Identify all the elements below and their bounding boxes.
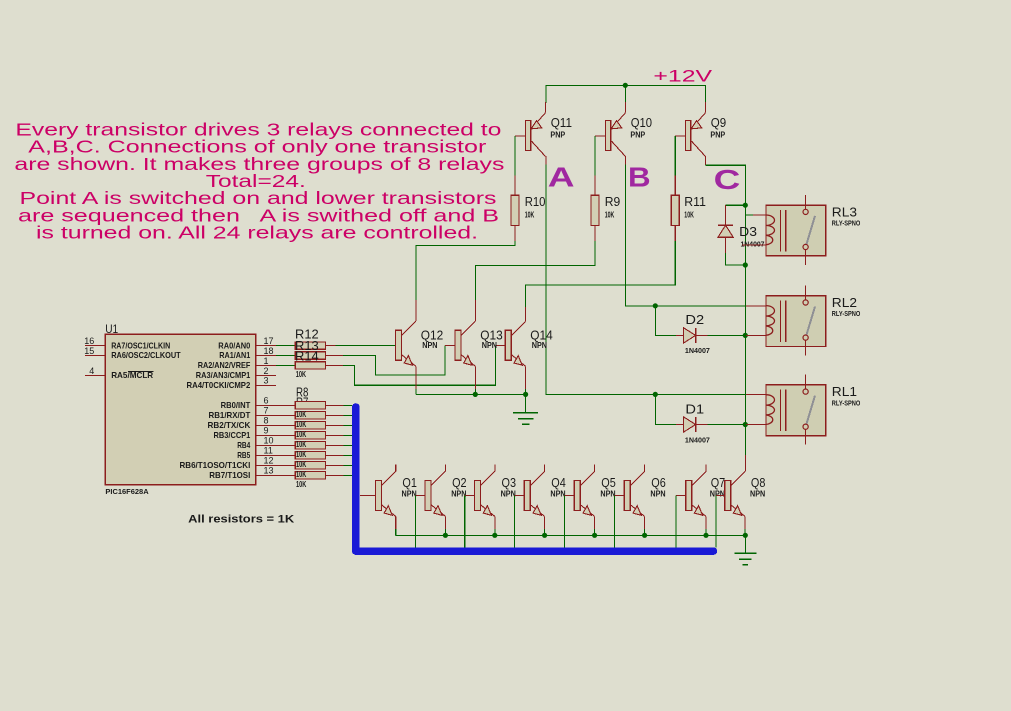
- svg-text:RB0/INT: RB0/INT: [221, 400, 251, 410]
- wire D1 branch from net A: [655, 394, 676, 424]
- resistor R12 body: [295, 342, 325, 349]
- svg-text:RB7/T1OSI: RB7/T1OSI: [209, 470, 250, 480]
- wire to bottom ground: [744, 535, 746, 553]
- U1 pin 3 stub: [256, 384, 276, 386]
- wire RL3 coil bottom pin stub: [742, 244, 766, 246]
- U1 pin 9 stub: [256, 434, 276, 436]
- transistor Q1 emitter arrow: [384, 506, 392, 516]
- relay RL2 switch blade: [807, 307, 816, 335]
- junction chain / D2 cathode / RL2 coil: [743, 333, 748, 338]
- wire Q12 emitter to rail: [415, 366, 417, 389]
- transistor Q5 collector lead: [580, 471, 594, 485]
- svg-text:9: 9: [264, 426, 269, 436]
- diode D2 body: [684, 328, 696, 343]
- svg-text:12: 12: [264, 456, 274, 466]
- transistor Q12 body: [396, 330, 402, 360]
- svg-text:16: 16: [84, 336, 94, 346]
- relay RL2 switch bottom contact: [803, 335, 808, 340]
- transistor Q2 emitter arrow: [434, 506, 442, 516]
- wire U1 pin to resistor: [276, 355, 295, 357]
- relay RL1 NO pin: [805, 429, 807, 444]
- svg-text:RB2/TX/CK: RB2/TX/CK: [208, 420, 251, 430]
- wire Q2 base drop to bus: [414, 495, 416, 547]
- transistor Q13 emitter arrow: [464, 356, 472, 366]
- svg-text:NPN: NPN: [532, 341, 547, 350]
- svg-text:Q9: Q9: [711, 115, 726, 130]
- relay RL3 switch blade: [807, 216, 816, 244]
- svg-text:U1: U1: [105, 322, 118, 336]
- wire Q10 base to R9: [595, 135, 605, 137]
- wire R12 to Q12 base: [325, 345, 335, 347]
- U1 pin 18 stub: [256, 355, 276, 357]
- svg-text:NPN: NPN: [482, 341, 497, 350]
- transistor Q4 body: [524, 480, 530, 510]
- diode D3 body: [718, 225, 733, 237]
- svg-text:10K: 10K: [296, 410, 306, 419]
- wire Q7 collector stub (open): [705, 464, 707, 471]
- U1 pin 7 stub: [256, 414, 276, 416]
- wire U1 pin to resistor: [276, 364, 295, 366]
- svg-text:NPN: NPN: [550, 490, 565, 499]
- wire Q5 base stub: [565, 494, 575, 496]
- svg-text:D3: D3: [739, 224, 757, 239]
- transistor Q3 collector lead: [481, 471, 495, 485]
- svg-text:15: 15: [84, 346, 94, 356]
- svg-text:RL3: RL3: [832, 204, 857, 219]
- wire Q4 base stub: [515, 494, 525, 496]
- wire to middle ground: [525, 394, 527, 412]
- wire Q8 base stub: [716, 494, 725, 496]
- transistor Q3 body: [475, 480, 481, 510]
- wire Q6 emitter to rail: [644, 516, 646, 529]
- relay RL1 coil: [766, 395, 775, 425]
- relay RL2 coil: [766, 306, 775, 336]
- transistor Q1 collector lead: [381, 471, 395, 485]
- transistor Q2 collector lead: [431, 471, 445, 485]
- svg-text:10K: 10K: [525, 211, 535, 220]
- wire D1 cathode to chain / RL1 coil bottom: [696, 424, 708, 426]
- wire Q14 emitter to rail: [525, 366, 527, 389]
- wire resistor to bus: [325, 464, 343, 466]
- transistor Q9 emitter arrow (PNP, into base): [691, 121, 702, 129]
- wire net A (Q11 collector down to RL1 row): [545, 156, 547, 164]
- transistor Q9 collector lead: [692, 141, 706, 156]
- relay RL3 coil: [766, 215, 775, 245]
- svg-text:R14: R14: [295, 348, 319, 363]
- svg-text:18: 18: [264, 346, 274, 356]
- relay RL1 core bars: [780, 390, 782, 432]
- wire Q1-Q8 emitter rail: [396, 534, 746, 536]
- svg-text:RLY-SPNO: RLY-SPNO: [832, 221, 861, 228]
- transistor Q1 emitter lead: [381, 505, 395, 517]
- transistor Q8 collector lead: [731, 471, 745, 485]
- wire U1 RB pin to resistor: [276, 464, 295, 466]
- resistor R8 column body 8: [295, 472, 325, 479]
- transistor Q6 collector lead: [630, 471, 644, 485]
- transistor Q4 emitter arrow: [533, 506, 541, 516]
- svg-text:A: A: [548, 162, 575, 193]
- U1 pin 12 stub: [256, 464, 276, 466]
- svg-text:10: 10: [264, 436, 274, 446]
- wire Q2 collector stub (open): [444, 464, 446, 471]
- svg-text:10K: 10K: [296, 440, 306, 449]
- relay RL3 switch bottom contact: [803, 244, 808, 249]
- svg-text:4: 4: [89, 366, 94, 376]
- svg-text:PNP: PNP: [550, 130, 565, 139]
- relay RL3 core bars: [780, 210, 782, 252]
- junction emitter rail: [443, 533, 448, 538]
- relay RL2 NO pin: [805, 340, 807, 355]
- svg-text:NPN: NPN: [650, 490, 665, 499]
- svg-text:RLY-SPNO: RLY-SPNO: [832, 311, 861, 318]
- diode D1 cathode bar: [695, 417, 697, 432]
- relay RL1 body: [766, 385, 826, 436]
- diode D2 cathode bar: [695, 328, 697, 343]
- transistor Q14 emitter arrow: [514, 356, 522, 366]
- svg-text:RA2/AN2/VREF: RA2/AN2/VREF: [198, 360, 251, 370]
- svg-text:10K: 10K: [296, 470, 306, 479]
- relay RL2 body: [766, 296, 826, 347]
- transistor Q6 emitter arrow: [633, 506, 641, 516]
- relay RL1 switch common pin: [805, 375, 807, 390]
- svg-text:RA4/T0CKI/CMP2: RA4/T0CKI/CMP2: [187, 380, 251, 390]
- ground (bottom right): [734, 552, 756, 554]
- svg-text:10K: 10K: [296, 430, 306, 439]
- resistor R10 body: [511, 195, 519, 225]
- svg-text:Q5: Q5: [601, 475, 616, 490]
- transistor Q13 emitter lead: [461, 355, 475, 367]
- wire Q6 collector stub (open): [644, 464, 646, 471]
- wire R13 to Q13 base: [325, 355, 343, 357]
- svg-text:NPN: NPN: [422, 341, 437, 350]
- wire Q7 base drop to bus: [675, 495, 677, 547]
- transistor Q11 collector lead: [532, 141, 546, 156]
- svg-text:6: 6: [264, 396, 269, 406]
- svg-text:PIC16F628A: PIC16F628A: [105, 487, 149, 496]
- wire Q2 emitter to rail: [444, 516, 446, 529]
- svg-text:10K: 10K: [684, 211, 694, 220]
- IC U1 body: [105, 334, 255, 485]
- svg-text:NPN: NPN: [600, 490, 615, 499]
- wire R10 bottom to Q12 collector: [514, 226, 516, 241]
- transistor Q8 body: [725, 480, 731, 510]
- svg-text:NPN: NPN: [750, 490, 765, 499]
- transistor Q10 emitter arrow (PNP, into base): [611, 121, 622, 129]
- svg-text:+12V: +12V: [653, 67, 712, 85]
- svg-text:1: 1: [264, 356, 269, 366]
- U1 pin 8 stub: [256, 424, 276, 426]
- svg-text:1N4007: 1N4007: [685, 348, 710, 355]
- wire Q5 base drop to bus: [564, 495, 566, 547]
- wire Q11 emitter stub: [545, 102, 547, 113]
- svg-text:Q2: Q2: [452, 475, 467, 490]
- svg-text:8: 8: [264, 416, 269, 426]
- resistor R9 body: [591, 195, 599, 225]
- resistor R8 column body 4: [295, 432, 325, 439]
- relay RL3 switch common pin: [805, 195, 807, 210]
- wire Q11 base to R10: [515, 135, 525, 137]
- transistor Q11 body: [526, 121, 531, 151]
- svg-text:RB5: RB5: [237, 450, 250, 460]
- relay RL1 switch top contact: [803, 389, 808, 394]
- svg-text:RA1/AN1: RA1/AN1: [219, 350, 250, 360]
- relay RL2 switch top contact: [803, 300, 808, 305]
- svg-text:RA0/AN0: RA0/AN0: [218, 340, 250, 350]
- transistor Q13 body: [455, 330, 461, 360]
- wire D3 cathode link: [726, 204, 746, 206]
- resistor R8 column body 7: [295, 462, 325, 469]
- resistor R8 column body 3: [295, 422, 325, 429]
- relay RL3 body: [766, 205, 826, 256]
- U1 pin 4 stub: [85, 374, 106, 376]
- wire U1 RB pin to resistor: [276, 414, 295, 416]
- svg-text:RL1: RL1: [832, 384, 857, 399]
- transistor Q1 body: [375, 480, 381, 510]
- svg-text:Q6: Q6: [651, 475, 666, 490]
- svg-text:D1: D1: [685, 401, 704, 416]
- wire Q5 collector stub (open): [594, 464, 596, 471]
- wire U1 pin to resistor: [276, 345, 295, 347]
- transistor Q9 emitter lead: [692, 113, 706, 129]
- wire Q4 emitter to rail: [544, 516, 546, 529]
- resistor R11 body: [671, 195, 679, 225]
- junction chain / D1 cathode / RL1 coil: [743, 422, 748, 427]
- wire Q3 emitter to rail: [494, 516, 496, 529]
- svg-text:Q4: Q4: [551, 475, 566, 490]
- wire Q7 emitter to rail: [705, 516, 707, 529]
- svg-text:PNP: PNP: [630, 130, 645, 139]
- relay RL1 switch bottom contact: [803, 424, 808, 429]
- svg-text:R9: R9: [605, 194, 621, 209]
- transistor Q14 body: [505, 330, 511, 360]
- resistor R8 column body 1: [295, 402, 325, 409]
- wire Q4 base drop to bus: [514, 495, 516, 547]
- transistor Q3 emitter lead: [481, 505, 495, 517]
- wire resistor to bus: [325, 444, 343, 446]
- junction on +12V rail (Q10 emitter): [623, 83, 628, 88]
- wire Q1 base to bus: [360, 494, 375, 496]
- wire R9 bottom to Q13 collector: [594, 226, 596, 241]
- wire D2 branch from net B: [655, 306, 676, 336]
- transistor Q10 emitter lead: [612, 113, 626, 129]
- transistor Q10 body: [606, 121, 611, 151]
- wire resistor to bus: [325, 454, 343, 456]
- junction net A / D1 branch: [653, 392, 658, 397]
- svg-text:NPN: NPN: [402, 490, 417, 499]
- relay RL3 NO pin: [805, 250, 807, 265]
- svg-text:Q7: Q7: [711, 475, 726, 490]
- transistor Q12 emitter lead: [402, 355, 416, 367]
- wire Q1 collector stub (open): [395, 464, 397, 471]
- svg-text:is turned on. All 24 relays ar: is turned on. All 24 relays are controll…: [36, 223, 478, 243]
- U1 pin 10 stub: [256, 444, 276, 446]
- junction emitter rail: [642, 533, 647, 538]
- svg-text:10K: 10K: [296, 480, 306, 489]
- svg-text:RLY-SPNO: RLY-SPNO: [832, 400, 861, 407]
- svg-text:13: 13: [264, 466, 274, 476]
- wire U1 RB pin to resistor: [276, 444, 295, 446]
- wire Q9 emitter stub: [704, 102, 706, 113]
- transistor Q8 emitter lead: [731, 505, 745, 517]
- transistor Q4 emitter lead: [530, 505, 544, 517]
- wire Q3 collector stub (open): [494, 464, 496, 471]
- wire resistor to bus: [325, 404, 343, 406]
- U1 pin 1 stub: [256, 364, 276, 366]
- svg-text:RL2: RL2: [832, 295, 857, 310]
- bus (thick blue): [356, 407, 714, 551]
- svg-text:Q3: Q3: [502, 475, 517, 490]
- wire Q8 collector diagonal from chain: [731, 471, 745, 485]
- resistor R13 body: [295, 352, 325, 359]
- transistor Q7 collector lead: [692, 471, 706, 485]
- wire Q10 emitter stub: [624, 102, 626, 113]
- junction emitter rail / ground: [743, 533, 748, 538]
- wire Q8 emitter to rail: [744, 516, 746, 529]
- svg-text:Q1: Q1: [402, 475, 417, 490]
- wire resistor to bus: [325, 414, 343, 416]
- junction Q13 emitter: [473, 392, 478, 397]
- svg-text:10K: 10K: [296, 420, 306, 429]
- transistor Q5 emitter arrow: [583, 506, 591, 516]
- wire Q4 collector stub (open): [544, 464, 546, 471]
- wire RL3 coil top pin: [745, 205, 753, 215]
- svg-text:1N4007: 1N4007: [685, 437, 710, 444]
- wire Q10 emitter drop: [624, 85, 626, 103]
- wire resistor to bus: [325, 474, 343, 476]
- wire U1 RB pin to resistor: [276, 424, 295, 426]
- wire U1 RB pin to resistor: [276, 404, 295, 406]
- svg-text:3: 3: [264, 376, 269, 386]
- U1 pin 11 stub: [256, 454, 276, 456]
- transistor Q11 emitter arrow (PNP, into base): [531, 121, 542, 129]
- svg-text:D2: D2: [685, 312, 704, 327]
- wire relay-diode chain vertical: [744, 205, 746, 455]
- wire U1 RB pin to resistor: [276, 454, 295, 456]
- wire net C (Q9 collector to relay chain): [704, 156, 706, 165]
- resistor R8 column body 6: [295, 452, 325, 459]
- transistor Q6 body: [624, 480, 630, 510]
- svg-text:2: 2: [264, 366, 269, 376]
- wire U1 RB pin to resistor: [276, 474, 295, 476]
- resistor R14 body: [295, 362, 325, 369]
- diode D1 body: [684, 417, 696, 432]
- resistor R8 column body 5: [295, 442, 325, 449]
- wire Q7 base stub: [676, 494, 686, 496]
- transistor Q11 emitter lead: [532, 113, 546, 129]
- wire Q13 emitter to rail: [474, 366, 476, 389]
- wire Q9 base to R11: [675, 135, 685, 137]
- U1 pin 13 stub: [256, 474, 276, 476]
- wire Q6 base stub: [615, 494, 625, 496]
- wire +12V rail: [546, 85, 706, 103]
- resistor R8 column body 2: [295, 412, 325, 419]
- wire R14 to Q14 base: [325, 364, 343, 366]
- U1 pin 6 stub: [256, 404, 276, 406]
- U1 pin 2 stub: [256, 374, 276, 376]
- transistor Q5 body: [574, 480, 580, 510]
- wire resistor to bus: [325, 434, 343, 436]
- wire Q8 base drop to bus: [715, 495, 717, 547]
- transistor Q4 collector lead: [530, 471, 544, 485]
- U1 MCLR overline: [128, 370, 153, 372]
- transistor Q10 collector lead: [612, 141, 626, 156]
- svg-text:R8: R8: [296, 384, 308, 399]
- svg-text:C: C: [714, 164, 741, 195]
- svg-text:RB1/RX/DT: RB1/RX/DT: [209, 410, 251, 420]
- diode D3 cathode bar: [718, 224, 733, 226]
- wire D2 cathode to chain / RL2 coil bottom: [696, 334, 708, 336]
- svg-text:Q10: Q10: [631, 115, 652, 130]
- junction emitter rail: [592, 533, 597, 538]
- svg-text:RA7/OSC1/CLKIN: RA7/OSC1/CLKIN: [111, 340, 170, 350]
- svg-text:10K: 10K: [296, 450, 306, 459]
- svg-text:10K: 10K: [605, 211, 615, 220]
- wire resistor to bus: [325, 424, 343, 426]
- svg-text:10K: 10K: [296, 370, 306, 379]
- relay RL2 switch common pin: [805, 285, 807, 300]
- U1 pin 15 stub: [85, 355, 106, 357]
- svg-text:Q8: Q8: [751, 475, 766, 490]
- svg-text:NPN: NPN: [501, 490, 516, 499]
- svg-text:R11: R11: [684, 194, 706, 209]
- wire U1 RB pin to resistor: [276, 434, 295, 436]
- transistor Q2 emitter lead: [431, 505, 445, 517]
- junction net B / D2 branch: [653, 303, 658, 308]
- svg-text:10K: 10K: [296, 460, 306, 469]
- svg-text:17: 17: [264, 336, 274, 346]
- svg-text:RB3/CCP1: RB3/CCP1: [214, 430, 251, 440]
- transistor Q3 emitter arrow: [483, 506, 491, 516]
- U1 pin 17 stub: [256, 345, 276, 347]
- svg-text:7: 7: [264, 406, 269, 416]
- junction emitter rail: [542, 533, 547, 538]
- wire D3 anode link: [725, 237, 727, 253]
- transistor Q7 emitter arrow: [694, 506, 702, 516]
- relay RL2 core bars: [780, 300, 782, 342]
- wire Q12-Q14 emitter rail: [416, 393, 526, 395]
- svg-text:RA3/AN3/CMP1: RA3/AN3/CMP1: [196, 370, 251, 380]
- junction emitter rail: [703, 533, 708, 538]
- wire Q2 base stub: [415, 494, 425, 496]
- transistor Q8 emitter arrow: [733, 506, 741, 516]
- transistor Q13 collector lead: [461, 321, 475, 335]
- wire Q3 base drop to bus: [464, 495, 466, 547]
- U1 pin 16 stub: [85, 345, 106, 347]
- svg-text:RA6/OSC2/CLKOUT: RA6/OSC2/CLKOUT: [111, 350, 181, 360]
- wire R11 bottom to Q14 collector: [674, 226, 676, 241]
- junction chain / D3 anode: [743, 262, 748, 267]
- transistor Q7 body: [686, 480, 692, 510]
- wire net B (Q10 collector down to RL2 row): [624, 156, 626, 164]
- svg-text:All resistors = 1K: All resistors = 1K: [188, 514, 294, 526]
- transistor Q5 emitter lead: [580, 505, 594, 517]
- svg-text:NPN: NPN: [710, 490, 725, 499]
- svg-text:R10: R10: [525, 194, 546, 209]
- relay RL3 switch top contact: [803, 209, 808, 214]
- transistor Q14 emitter lead: [511, 355, 525, 367]
- transistor Q6 emitter lead: [630, 505, 644, 517]
- transistor Q14 collector lead: [511, 321, 525, 335]
- transistor Q7 emitter lead: [692, 505, 706, 517]
- junction emitter rail: [492, 533, 497, 538]
- ground (middle): [513, 412, 538, 414]
- wire Q6 base drop to bus: [614, 495, 616, 547]
- svg-text:PNP: PNP: [710, 130, 725, 139]
- junction Q14 emitter / ground: [523, 392, 528, 397]
- svg-text:Q11: Q11: [551, 115, 572, 130]
- transistor Q12 emitter arrow: [404, 356, 412, 366]
- svg-text:RB6/T1OSO/T1CKI: RB6/T1OSO/T1CKI: [180, 460, 251, 470]
